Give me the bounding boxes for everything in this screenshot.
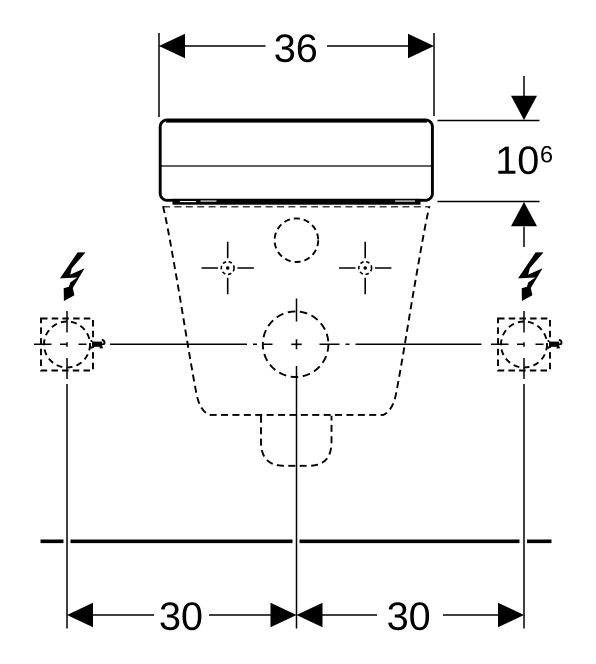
bowl trap outlet (dashed U): [261, 416, 332, 466]
finished floor line (thick): [41, 539, 552, 543]
dimension 36 arrow right: [408, 34, 434, 59]
bowl outline top edge (dashed): [163, 206, 430, 208]
cistern tank outline: [160, 120, 432, 200]
dimension 30 line left: [93, 614, 271, 616]
cable clamp right: [548, 340, 562, 349]
cable clamp left: [91, 340, 105, 349]
dimension 30 arrow far left: [67, 603, 93, 628]
water supply circle (dashed): [275, 218, 319, 262]
dimension 36 arrow left: [159, 34, 185, 59]
dimension 10-6 arrow top: [511, 76, 537, 120]
bowl outline sides and bottom (dashed): [163, 206, 430, 415]
dimension 30 arrow far right: [498, 603, 524, 628]
horizontal centerline: [34, 343, 562, 345]
dimension 36 extension line right: [433, 33, 435, 116]
rail slit highlights: [180, 200, 415, 203]
mounting circle left (dashed): [44, 322, 90, 368]
dimension 30 witness line left: [66, 384, 68, 629]
dimension 36 extension line left: [158, 33, 160, 117]
vertical centerline center: [296, 299, 298, 629]
dimension 30 label left: [161, 602, 202, 630]
dimension 10-6 extension line top: [438, 120, 540, 122]
dimension 36 line: [185, 45, 408, 47]
drain circle center cross: [291, 339, 301, 349]
fixation cross marker left: [202, 242, 254, 294]
cistern tank lid top edge: [166, 119, 427, 122]
dimension 30 witness line right: [523, 384, 525, 629]
dimension 30 arrows center pair: [271, 603, 323, 628]
lightning bolt left: [60, 252, 86, 301]
cistern mounting rail black bar: [173, 199, 421, 205]
vertical centerline right mounting: [523, 311, 525, 379]
dimension 10-6 extension line bottom: [438, 201, 540, 203]
cistern tank divider line: [161, 165, 433, 167]
drain circle (dashed): [263, 311, 329, 377]
mounting box left (dashed square): [41, 319, 93, 371]
vertical centerline left mounting: [66, 311, 68, 379]
mounting circle right (dashed): [501, 322, 547, 368]
mounting box right (dashed square): [498, 319, 550, 371]
dimension 36 label: [275, 34, 316, 62]
lightning bolt right: [518, 252, 544, 301]
dimension 10-6 label: [498, 146, 552, 174]
dimension 30 line right: [323, 614, 499, 616]
dimension 30 label right: [388, 602, 429, 630]
dimension 10-6 arrow bottom: [511, 202, 537, 247]
fixation cross marker right: [339, 242, 391, 294]
